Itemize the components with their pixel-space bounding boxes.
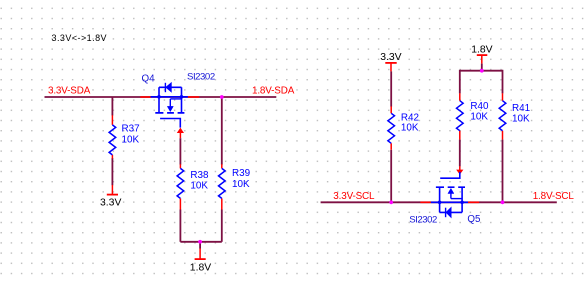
pin Q5 drain arrow	[456, 166, 463, 174]
svg-text:10K: 10K	[232, 179, 250, 190]
wire R38 bottom	[179, 210, 181, 242]
net label 3.3V-SDA	[48, 85, 91, 96]
svg-text:1.8V-SDA: 1.8V-SDA	[252, 85, 295, 96]
wire 3.3V-SDA main horizontal	[45, 96, 277, 98]
transistor Q4 SI2302	[150, 83, 187, 128]
resistor R41	[499, 93, 530, 139]
pin Q4 gate arrow	[177, 128, 184, 139]
resistor R40	[457, 93, 490, 139]
power port 1.8V (bottom)	[190, 242, 211, 274]
wire rail to R41	[502, 70, 504, 94]
resistor R42	[388, 106, 419, 149]
svg-text:3.3V-SDA: 3.3V-SDA	[48, 85, 91, 96]
svg-text:SI2302: SI2302	[409, 214, 437, 225]
svg-text:10K: 10K	[190, 181, 208, 192]
junction R42/SCL	[389, 200, 393, 204]
svg-text:10K: 10K	[401, 122, 419, 133]
wire R42 to SCL	[390, 150, 392, 203]
wire 3.3V to R42	[390, 71, 392, 106]
wire 1.8V stub	[481, 64, 483, 71]
pin Q4 drain	[188, 96, 199, 98]
wire R39 branch	[221, 97, 223, 165]
wire R40 to Q5 drain	[459, 140, 461, 167]
net label 1.8V-SCL	[533, 191, 575, 202]
svg-text:3.3V: 3.3V	[100, 197, 121, 208]
pin Q4 source	[140, 96, 150, 98]
junction at 1.8V power	[198, 240, 202, 244]
power port 3.3V (left)	[100, 185, 121, 208]
resistor R39	[219, 164, 251, 209]
svg-text:10K: 10K	[512, 114, 530, 125]
svg-text:10K: 10K	[470, 112, 488, 123]
wire rail to R40	[459, 70, 461, 94]
junction 1.8V rail	[480, 69, 484, 73]
net label 3.3V-SCL	[333, 191, 375, 202]
resistor R38	[177, 164, 209, 209]
power port 3.3V (right top)	[380, 52, 401, 72]
svg-text:R37: R37	[122, 124, 140, 135]
wire bottom rail SDA	[180, 241, 221, 243]
svg-text:1.8V-SCL: 1.8V-SCL	[533, 191, 575, 202]
pin Q5 drain side	[468, 201, 479, 203]
junction at 1.8V-SDA branch	[220, 95, 224, 99]
note text 3.3V<->1.8V	[52, 33, 108, 43]
svg-text:SI2302: SI2302	[187, 71, 215, 82]
designator Q5	[467, 214, 481, 225]
power port 1.8V (right top)	[471, 44, 492, 63]
svg-text:3.3V-SCL: 3.3V-SCL	[333, 191, 375, 202]
svg-text:10K: 10K	[122, 134, 140, 145]
svg-text:1.8V: 1.8V	[471, 44, 492, 55]
junction R41/SCL	[501, 200, 505, 204]
wire top rail right	[460, 70, 503, 72]
svg-text:R38: R38	[190, 170, 209, 181]
svg-text:3.3V<->1.8V: 3.3V<->1.8V	[52, 33, 108, 43]
wire R37 branch	[111, 97, 113, 185]
designator Q4	[142, 73, 156, 84]
svg-text:Q4: Q4	[142, 73, 156, 84]
transistor Q5 SI2302	[431, 172, 468, 218]
net label 1.8V-SDA	[252, 85, 295, 96]
resistor R37	[109, 115, 140, 158]
wire R41 to SCL	[502, 140, 504, 203]
svg-text:Q5: Q5	[467, 214, 481, 225]
wire gate Q4 to R38	[179, 138, 181, 164]
svg-text:1.8V: 1.8V	[190, 263, 211, 274]
svg-text:3.3V: 3.3V	[380, 52, 401, 63]
svg-text:R41: R41	[512, 103, 531, 114]
comment SI2302 (Q4)	[187, 71, 215, 82]
svg-text:R39: R39	[232, 168, 251, 179]
wire SCL main horizontal	[321, 201, 557, 203]
svg-text:R40: R40	[470, 101, 489, 112]
comment SI2302 (Q5)	[409, 214, 437, 225]
pin Q5 source	[420, 201, 430, 203]
wire R39 bottom	[221, 210, 223, 242]
